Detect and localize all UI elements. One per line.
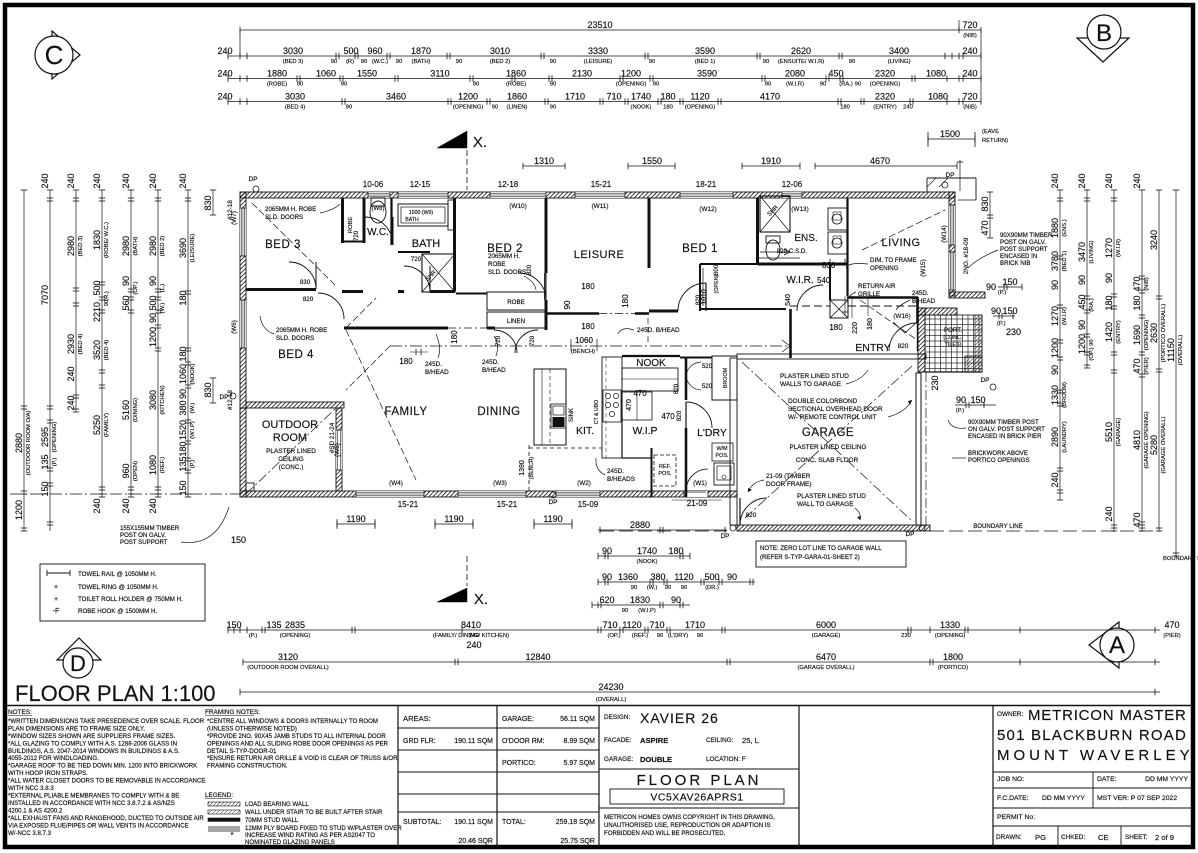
left dimension chain 7	[187, 190, 189, 497]
exterior wall left	[240, 192, 246, 408]
svg-text:W/M: W/M	[716, 446, 728, 452]
svg-text:500: 500	[343, 46, 358, 56]
svg-text:240: 240	[962, 68, 977, 78]
linen double doors	[494, 330, 517, 353]
svg-text:2065MM H. ROBE: 2065MM H. ROBE	[265, 206, 316, 213]
svg-text:(OVERALL): (OVERALL)	[596, 697, 627, 703]
svg-text:830: 830	[300, 279, 311, 286]
svg-text:1200: 1200	[458, 91, 478, 101]
svg-text:(BED 4): (BED 4)	[285, 105, 306, 111]
svg-text:UNAUTHORISED USE, REPRODUCTION: UNAUTHORISED USE, REPRODUCTION OR ADAPTI…	[604, 822, 771, 829]
svg-text:245D. B/HEAD: 245D. B/HEAD	[637, 327, 680, 334]
svg-text:(OPENING): (OPENING)	[280, 633, 311, 639]
wir walls	[699, 264, 701, 311]
svg-text:90: 90	[849, 59, 855, 65]
svg-text:90: 90	[1077, 320, 1087, 330]
exterior wall top	[240, 192, 955, 198]
legend towel rail symbol	[47, 572, 70, 574]
svg-text:1190: 1190	[346, 514, 365, 524]
svg-text:1390: 1390	[519, 460, 526, 476]
svg-text:(ENTRY): (ENTRY)	[873, 105, 896, 111]
svg-text:240: 240	[217, 46, 232, 56]
entry bulkhead dashed line	[848, 305, 918, 307]
svg-text:90: 90	[602, 572, 612, 582]
svg-text:90: 90	[473, 82, 479, 88]
svg-text:PLASTER LINED CEILING: PLASTER LINED CEILING	[789, 444, 866, 451]
svg-text:15-09: 15-09	[578, 500, 599, 509]
svg-text:SLD. DOORS: SLD. DOORS	[488, 269, 526, 276]
svg-text:(REF.): (REF.)	[632, 633, 648, 639]
kitchen sink	[551, 404, 566, 428]
svg-text:(LEISURE): (LEISURE)	[584, 59, 613, 65]
svg-text:20.46 SQR: 20.46 SQR	[458, 838, 493, 845]
svg-text:TOTAL:: TOTAL:	[502, 819, 526, 826]
svg-text:DD MM YYYY: DD MM YYYY	[1145, 776, 1188, 783]
svg-text:190.11 SQM: 190.11 SQM	[454, 738, 493, 745]
svg-text:380: 380	[178, 400, 188, 415]
ens toilet	[766, 240, 780, 260]
svg-text:KIT.: KIT.	[576, 425, 594, 437]
hip line entry diag	[860, 300, 920, 342]
left dimension chain 6	[157, 190, 159, 497]
svg-text:1120: 1120	[622, 620, 641, 630]
svg-text:180: 180	[178, 346, 188, 361]
ens shower	[760, 196, 790, 232]
window W11 (leisure)	[575, 192, 625, 198]
svg-text:1200: 1200	[14, 500, 24, 520]
svg-text:(W6): (W6)	[231, 320, 238, 334]
svg-text:3010: 3010	[490, 46, 510, 56]
svg-text:501 BLACKBURN ROAD: 501 BLACKBURN ROAD	[997, 727, 1187, 744]
svg-text:OUTDOOR: OUTDOOR	[262, 419, 318, 431]
bottom dimension row wip	[592, 604, 690, 606]
svg-text:PLASTER LINED STUD: PLASTER LINED STUD	[797, 493, 866, 500]
svg-text:X.: X.	[473, 134, 487, 151]
svg-text:(W4): (W4)	[389, 480, 403, 487]
svg-text:1830: 1830	[92, 230, 102, 250]
svg-text:(P.): (P.)	[997, 321, 1006, 327]
svg-text:720: 720	[962, 91, 977, 101]
portico bottom edge	[925, 371, 982, 373]
broom closet	[712, 356, 737, 400]
svg-text:SLD. DOORS: SLD. DOORS	[276, 335, 314, 342]
svg-text:240: 240	[1050, 472, 1060, 487]
svg-text:LEISURE: LEISURE	[574, 249, 625, 261]
bottom dimension row wip-dr	[598, 581, 755, 583]
svg-text:(PIER): (PIER)	[1163, 633, 1180, 639]
laundry tub	[714, 463, 734, 485]
svg-text:1060: 1060	[316, 68, 336, 78]
svg-text:(EAVE: (EAVE	[982, 129, 999, 135]
svg-text:(LEISURE): (LEISURE)	[190, 234, 196, 263]
svg-text:90: 90	[649, 59, 655, 65]
bed2 robe block	[487, 292, 546, 310]
svg-text:2980: 2980	[66, 236, 76, 256]
svg-text:(OP.): (OP.)	[607, 633, 620, 639]
wall ens left	[756, 198, 759, 264]
hall door bed4 arc	[318, 293, 344, 319]
svg-text:1740: 1740	[637, 546, 657, 556]
svg-text:BROOM: BROOM	[723, 367, 729, 388]
svg-text:230: 230	[901, 633, 911, 639]
svg-text:*PROVIDE 2NO. 90X45 JAMB STUDS: *PROVIDE 2NO. 90X45 JAMB STUDS TO ALL IN…	[207, 733, 386, 740]
left wall window dim 830 top	[212, 190, 214, 215]
svg-text:240: 240	[1132, 173, 1142, 188]
svg-text:(W8): (W8)	[372, 206, 385, 212]
svg-text:240: 240	[66, 366, 76, 381]
svg-text:(BENCH): (BENCH)	[529, 457, 535, 480]
top dimension row 3	[228, 101, 981, 103]
svg-text:WALLS TO GARAGE: WALLS TO GARAGE	[780, 381, 841, 388]
svg-text:ENCASED IN BRICK PIER: ENCASED IN BRICK PIER	[968, 433, 1042, 440]
svg-text:15-21: 15-21	[398, 500, 419, 509]
svg-text:ENTRY: ENTRY	[855, 342, 890, 354]
svg-text:INCREASE WIND RATING AS PER AS: INCREASE WIND RATING AS PER AS2047 TO	[245, 832, 375, 839]
garage left wall	[730, 358, 737, 525]
plan code box	[610, 789, 784, 804]
svg-text:D: D	[70, 651, 86, 676]
svg-text:BED 4: BED 4	[278, 349, 314, 361]
svg-text:90: 90	[121, 276, 131, 286]
svg-text:135: 135	[178, 456, 188, 471]
svg-text:NOTE: ZERO LOT LINE TO GARAGE: NOTE: ZERO LOT LINE TO GARAGE WALL	[760, 545, 882, 552]
portico top wall	[949, 292, 985, 298]
svg-text:NOOK: NOOK	[636, 358, 666, 369]
svg-text:710: 710	[602, 620, 617, 630]
svg-text:12MM PLY BOARD FIXED TO STUD W: 12MM PLY BOARD FIXED TO STUD W/PLASTER O…	[245, 825, 402, 832]
svg-text:1880: 1880	[267, 68, 287, 78]
svg-text:90: 90	[681, 585, 687, 591]
svg-text:WITH HOOP IRON STRAPS.: WITH HOOP IRON STRAPS.	[8, 770, 88, 777]
svg-text:BED 3: BED 3	[265, 239, 301, 251]
svg-text:180: 180	[621, 294, 630, 308]
svg-text:(W1): (W1)	[693, 480, 707, 487]
svg-text:(NIB): (NIB)	[963, 105, 977, 111]
svg-text:1870: 1870	[411, 46, 431, 56]
svg-text:(R): (R)	[346, 59, 354, 65]
wir door arc	[820, 272, 844, 296]
svg-text:820: 820	[526, 264, 533, 275]
svg-text:6470: 6470	[816, 652, 836, 662]
svg-text:(L'DRY): (L'DRY)	[668, 633, 688, 639]
svg-text:830: 830	[822, 261, 836, 270]
hip line bed3	[252, 203, 335, 285]
svg-text:#12-18: #12-18	[227, 390, 234, 410]
svg-text:F.C.DATE:: F.C.DATE:	[997, 795, 1029, 802]
right dimension chain 6 overall	[1175, 190, 1177, 556]
bottom main dimension chain	[228, 629, 1160, 631]
svg-text:620: 620	[599, 595, 614, 605]
door W1 opening in bottom wall	[684, 491, 708, 497]
svg-text:1080: 1080	[928, 91, 948, 101]
outdoor room dash-dot	[246, 408, 336, 494]
window W5 outdoor right wall	[336, 430, 342, 470]
svg-text:(ENTRY): (ENTRY)	[1116, 320, 1122, 343]
svg-text:(OPENING): (OPENING)	[453, 105, 484, 111]
svg-text:8410: 8410	[461, 620, 481, 630]
svg-text:90X90MM TIMBER: 90X90MM TIMBER	[1000, 232, 1053, 239]
svg-text:GARAGE:: GARAGE:	[604, 756, 633, 763]
svg-text:90: 90	[346, 105, 352, 111]
svg-text:2880: 2880	[14, 433, 24, 453]
svg-text:NOMINATED GLAZING PANELS: NOMINATED GLAZING PANELS	[245, 839, 335, 846]
svg-text:3520: 3520	[92, 340, 102, 360]
svg-text:150: 150	[1002, 306, 1017, 316]
svg-text:1500: 1500	[940, 129, 960, 139]
svg-text:3120: 3120	[278, 652, 298, 662]
svg-text:PORTICO:: PORTICO:	[502, 760, 536, 767]
section symbol B (top-right)	[1077, 38, 1129, 62]
svg-text:3330: 3330	[588, 46, 608, 56]
right dimension chain 2	[1086, 190, 1088, 368]
svg-text:500: 500	[92, 280, 102, 295]
svg-text:245D.: 245D.	[482, 359, 499, 366]
svg-text:1200: 1200	[1050, 338, 1060, 358]
svg-text:B/HEAD: B/HEAD	[482, 367, 506, 374]
entry window chevron W16	[893, 322, 917, 333]
svg-text:(W12): (W12)	[699, 206, 716, 213]
svg-text:ROOM: ROOM	[273, 432, 307, 444]
svg-text:*WINDOW SIZES SHOWN ARE SUPPLI: *WINDOW SIZES SHOWN ARE SUPPLIERS FRAME …	[8, 733, 176, 740]
svg-text:(P.): (P.)	[52, 458, 58, 467]
svg-text:BRICKWORK ABOVE: BRICKWORK ABOVE	[968, 450, 1028, 457]
portico left wall	[918, 308, 925, 372]
svg-text:470: 470	[1132, 512, 1142, 527]
outdoor room corner post	[246, 483, 254, 491]
bed2 door arc	[519, 273, 546, 300]
svg-text:90: 90	[765, 82, 771, 88]
svg-text:2080: 2080	[785, 68, 805, 78]
svg-text:LOCATION: F: LOCATION: F	[706, 756, 746, 763]
svg-text:70MM STUD WALL: 70MM STUD WALL	[245, 817, 299, 824]
svg-text:1190: 1190	[543, 514, 562, 524]
svg-text:240: 240	[962, 46, 977, 56]
svg-text:(BED 3): (BED 3)	[283, 59, 304, 65]
svg-text:3030: 3030	[283, 46, 303, 56]
svg-text:(W14): (W14)	[941, 225, 948, 242]
svg-text:POST SUPPORT: POST SUPPORT	[120, 539, 168, 546]
window W2 kitchen bottom	[556, 491, 600, 497]
ldry external door swing	[686, 469, 708, 491]
svg-text:180: 180	[581, 322, 595, 331]
garage bottom wall	[737, 525, 930, 531]
svg-text:90: 90	[653, 82, 659, 88]
svg-text:1270: 1270	[1050, 306, 1060, 326]
svg-text:1060: 1060	[178, 364, 188, 384]
svg-text:2835: 2835	[285, 620, 305, 630]
svg-text:1270: 1270	[1104, 238, 1114, 258]
svg-text:B: B	[1096, 20, 1112, 47]
svg-text:90: 90	[665, 585, 671, 591]
svg-text:1200: 1200	[1077, 334, 1087, 354]
svg-text:(BED 1): (BED 1)	[1062, 251, 1068, 272]
svg-text:CEILING:: CEILING:	[706, 737, 734, 744]
svg-text:3690: 3690	[178, 238, 188, 258]
svg-text:#12-18: #12-18	[227, 200, 234, 220]
svg-text:4810: 4810	[1132, 430, 1142, 450]
svg-text:(W.I.R): (W.I.R)	[786, 82, 804, 88]
svg-text:3030: 3030	[285, 91, 305, 101]
svg-text:OWNER:: OWNER:	[997, 711, 1023, 718]
svg-text:(BED 4): (BED 4)	[78, 334, 84, 355]
svg-text:(OPEN): (OPEN)	[133, 461, 139, 481]
svg-text:2065MM H.: 2065MM H.	[488, 253, 520, 260]
svg-text:*ALL WATER CLOSET DOORS TO BE: *ALL WATER CLOSET DOORS TO BE REMOVABLE …	[8, 778, 205, 785]
svg-text:90: 90	[492, 105, 498, 111]
svg-text:470: 470	[633, 389, 647, 398]
svg-text:LINEN: LINEN	[507, 318, 525, 325]
svg-text:3080: 3080	[148, 390, 158, 410]
svg-text:*WRITTEN DIMENSIONS TAKE PRESE: *WRITTEN DIMENSIONS TAKE PRESEDENCE OVER…	[8, 718, 205, 725]
svg-text:470: 470	[626, 399, 633, 411]
svg-text:1200: 1200	[621, 68, 641, 78]
wall bath right / bed2 left	[453, 198, 456, 291]
svg-text:W.I.R.: W.I.R.	[786, 275, 813, 286]
svg-text:XAVIER 26: XAVIER 26	[640, 710, 719, 726]
svg-text:180: 180	[867, 318, 874, 330]
svg-text:*ENSURE RETURN AIR GRILLE & VO: *ENSURE RETURN AIR GRILLE & VOID IS CLEA…	[207, 755, 398, 762]
svg-text:240: 240	[178, 173, 188, 188]
svg-text:SECTIONAL OVERHEAD DOOR: SECTIONAL OVERHEAD DOOR	[788, 406, 883, 413]
svg-text:GARAGE: GARAGE	[802, 427, 854, 439]
svg-text:1860: 1860	[506, 68, 526, 78]
svg-text:(W2): (W2)	[577, 480, 591, 487]
svg-text:240: 240	[466, 640, 481, 650]
svg-text:REF.: REF.	[659, 464, 672, 470]
bottom overall sub chain	[243, 661, 1160, 663]
svg-text:180: 180	[399, 357, 413, 366]
svg-text:(NIB): (NIB)	[963, 33, 977, 39]
svg-text:(GARAGE): (GARAGE)	[1116, 418, 1122, 447]
right wall window dim 830/470	[989, 192, 991, 238]
svg-text:90: 90	[361, 59, 367, 65]
svg-text:DD MM YYYY: DD MM YYYY	[1042, 795, 1085, 802]
svg-text:960: 960	[367, 46, 382, 56]
ens vanity basins	[828, 208, 847, 230]
svg-text:(BED 2): (BED 2)	[160, 236, 166, 257]
svg-text:PLASTER LINED STUD: PLASTER LINED STUD	[780, 373, 849, 380]
svg-text:(OPENING): (OPENING)	[52, 422, 58, 453]
svg-text:(DR.): (DR.)	[705, 585, 719, 591]
svg-text:90: 90	[550, 59, 556, 65]
svg-text:1010: 1010	[701, 289, 708, 305]
svg-text:(UNLESS OTHERWISE NOTED): (UNLESS OTHERWISE NOTED)	[207, 726, 297, 733]
svg-text:FORBIDDEN AND WILL BE PROSECUT: FORBIDDEN AND WILL BE PROSECUTED.	[604, 830, 726, 837]
svg-text:(R.): (R.)	[104, 291, 110, 301]
title block outline	[5, 705, 1193, 707]
ldry door leaf and swing	[685, 400, 687, 428]
svg-text:(BED 3): (BED 3)	[78, 236, 84, 257]
svg-text:PLASTER LINED: PLASTER LINED	[266, 448, 316, 455]
svg-text:DP: DP	[720, 533, 729, 540]
svg-text:90: 90	[991, 306, 1001, 316]
svg-text:+: +	[54, 596, 58, 603]
svg-text:CT & UBO: CT & UBO	[594, 400, 600, 424]
svg-text:720: 720	[411, 256, 422, 263]
svg-text:BRICK NIB: BRICK NIB	[1000, 260, 1030, 267]
svg-text:WITH NCC 3.8.3: WITH NCC 3.8.3	[8, 785, 54, 792]
svg-text:820: 820	[673, 383, 680, 394]
wall bed3 robe right	[341, 198, 344, 243]
exterior wall outdoor room top	[246, 402, 344, 408]
svg-text:155X155MM TIMBER: 155X155MM TIMBER	[120, 525, 180, 532]
svg-text:470: 470	[1132, 358, 1142, 373]
svg-text:W.I.P: W.I.P	[632, 425, 657, 437]
section marker X bottom	[437, 588, 467, 602]
svg-text:4055-2012 FOR WINDLOADING.: 4055-2012 FOR WINDLOADING.	[8, 755, 99, 762]
svg-text:90: 90	[563, 300, 572, 309]
svg-text:ASPIRE: ASPIRE	[640, 736, 668, 745]
svg-text:150: 150	[970, 395, 985, 405]
wall wip left / kitchen	[621, 392, 623, 458]
svg-text:240: 240	[121, 173, 131, 188]
svg-text:1860: 1860	[507, 91, 527, 101]
svg-text:+: +	[54, 584, 58, 591]
svg-text:5250: 5250	[92, 415, 102, 435]
hip line living diag	[862, 210, 945, 250]
svg-text:(W.I.R): (W.I.R)	[1116, 239, 1122, 257]
svg-text:245D.: 245D.	[607, 468, 624, 475]
window W8 (w.c.)	[368, 192, 390, 198]
svg-text:A: A	[1109, 632, 1125, 659]
left dimension chain 3	[75, 190, 77, 412]
svg-text:820: 820	[898, 343, 909, 350]
svg-text:5280: 5280	[1149, 435, 1159, 455]
svg-text:LOAD BEARING WALL: LOAD BEARING WALL	[245, 801, 309, 808]
svg-text:1120: 1120	[690, 91, 709, 101]
svg-text:(OUTDOOR ROOM OVERALL): (OUTDOOR ROOM OVERALL)	[247, 665, 329, 671]
svg-text:240: 240	[121, 498, 131, 513]
svg-text:(OPEN): (OPEN)	[714, 274, 720, 293]
svg-text:(ROBE/ W.C.): (ROBE/ W.C.)	[104, 222, 110, 258]
svg-text:245D.: 245D.	[912, 290, 929, 297]
svg-text:90: 90	[104, 300, 110, 306]
svg-text:240: 240	[217, 91, 232, 101]
svg-text:2595: 2595	[40, 427, 50, 447]
svg-text:(OPENING): (OPENING)	[870, 82, 901, 88]
svg-text:240: 240	[1050, 173, 1060, 188]
svg-text:METRICON HOMES OWNS COPYRIGHT: METRICON HOMES OWNS COPYRIGHT IN THIS DR…	[604, 814, 775, 821]
svg-text:240: 240	[40, 173, 50, 188]
svg-text:135: 135	[266, 620, 281, 630]
svg-text:150: 150	[178, 480, 188, 495]
svg-text:(OPENING): (OPENING)	[616, 82, 647, 88]
svg-text:(BATH): (BATH)	[133, 236, 139, 255]
svg-text:3470: 3470	[1077, 242, 1087, 262]
svg-text:(FAMILY): (FAMILY)	[104, 413, 110, 437]
svg-text:90: 90	[657, 633, 663, 639]
eave return edge line	[959, 160, 961, 191]
entry east wall above door	[916, 297, 919, 323]
svg-text:1710: 1710	[685, 620, 705, 630]
svg-text:240: 240	[66, 395, 76, 410]
svg-text:25.75 SQR: 25.75 SQR	[560, 838, 595, 845]
svg-text:6000: 6000	[816, 620, 836, 630]
svg-text:(GARAGE): (GARAGE)	[812, 633, 841, 639]
svg-text:90: 90	[671, 595, 681, 605]
wip shelves	[622, 392, 652, 420]
nook bench	[622, 368, 678, 391]
wc door arc	[365, 217, 393, 245]
window W4 family bottom	[356, 491, 424, 497]
svg-text:2630: 2630	[1149, 323, 1159, 343]
svg-text:ROBE: ROBE	[348, 217, 354, 234]
window W10 (bed 2)	[490, 192, 546, 198]
svg-text:*ALL EXHAUST FANS AND RANGEHOO: *ALL EXHAUST FANS AND RANGEHOOD, DUCTED …	[8, 815, 204, 822]
exterior wall left lower (outdoor room)	[240, 408, 246, 497]
svg-text:ROBE: ROBE	[507, 299, 525, 306]
svg-text:90: 90	[1050, 280, 1060, 290]
